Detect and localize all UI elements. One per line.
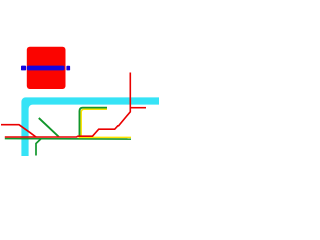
green NW diagonal	[39, 118, 59, 137]
yellow route corner (inner)	[81, 109, 107, 137]
yellow bottom horizontal	[79, 136, 132, 138]
cyan line (corner: horizontal right + vertical down)	[21, 97, 159, 156]
red tick right of vertical	[130, 107, 146, 109]
blue stripe left nub	[21, 66, 26, 71]
red icon square	[27, 47, 66, 89]
green route corner (outer)	[80, 108, 108, 137]
upper red line from left, diagonal through cyan	[1, 125, 36, 137]
main lower red line with steps up to red vertical	[5, 73, 131, 138]
green long horizontal under red	[5, 138, 131, 141]
blue stripe main	[27, 66, 65, 71]
green branch drop	[36, 139, 41, 156]
blue stripe right nub	[66, 66, 70, 71]
